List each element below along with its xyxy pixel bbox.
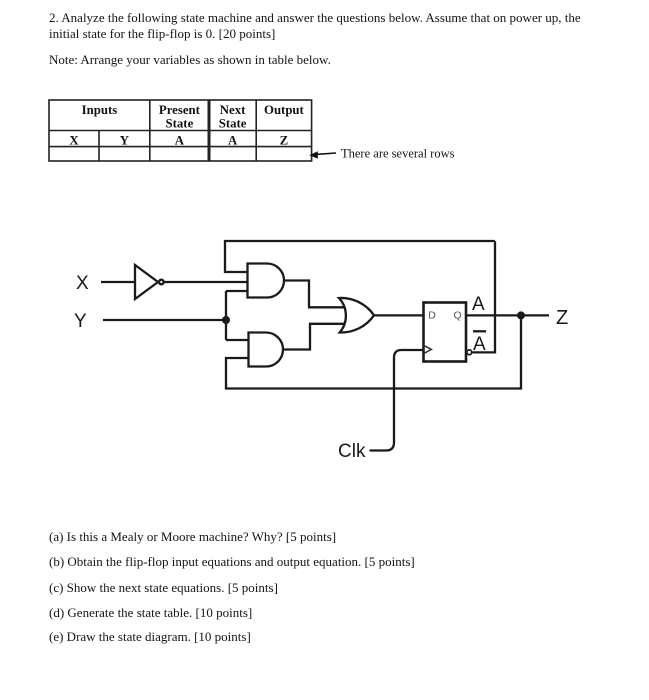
svg-text:State: State <box>166 116 194 130</box>
label X <box>76 273 89 294</box>
and-gate U3 (bottom) <box>249 333 284 367</box>
wire: Y branch to AND1 bottom input <box>226 290 248 292</box>
svg-text:Z: Z <box>280 134 289 148</box>
flip-flop U5 box <box>424 303 467 362</box>
wire: OR output to flip-flop D input <box>374 314 424 316</box>
annotation text: several rows <box>341 147 455 161</box>
note line <box>49 52 331 68</box>
and-gate U2 (top) <box>248 264 285 298</box>
svg-text:X: X <box>76 273 89 294</box>
node label A <box>472 294 485 315</box>
svg-text:D: D <box>428 310 436 322</box>
label Clk <box>338 441 366 462</box>
wire: AND2 output to OR bottom input <box>283 324 345 350</box>
label Z <box>556 307 568 329</box>
svg-text:There are several rows: There are several rows <box>341 147 455 161</box>
table header: Inputs <box>82 103 118 117</box>
svg-text:Inputs: Inputs <box>82 103 118 117</box>
wire: AND1 output to OR top input <box>284 281 345 308</box>
svg-text:A: A <box>473 334 486 355</box>
table row2: X Y A A Z <box>69 134 288 148</box>
table header: Present State <box>159 103 201 130</box>
svg-text:A: A <box>175 134 185 148</box>
state table thick divider <box>208 100 211 161</box>
label Y <box>74 311 87 332</box>
svg-text:Output: Output <box>264 103 305 117</box>
wire: Y branch to AND2 top input <box>226 339 249 341</box>
wire: Clk to flip-flop clock input <box>370 350 424 451</box>
wire: Qbar to feedback vertical <box>473 241 496 352</box>
svg-text:Present: Present <box>159 103 201 117</box>
table header: Next State <box>219 103 247 130</box>
svg-text:Y: Y <box>120 134 129 148</box>
node: Y junction dot <box>222 316 230 324</box>
wire: junction vertical branch <box>225 291 227 340</box>
or-gate U4 <box>339 298 374 333</box>
pin label D <box>428 310 436 322</box>
questions list <box>49 529 336 545</box>
svg-text:Z: Z <box>556 307 568 329</box>
pin label Q <box>454 310 462 322</box>
state table grid <box>49 100 312 161</box>
flip-flop Qbar bubble <box>467 350 472 355</box>
wire: A feedback to AND2 bottom input <box>226 315 521 388</box>
wire: A-bar feedback top line <box>225 241 495 272</box>
node: Q output junction dot <box>517 311 525 319</box>
problem statement paragraph <box>49 10 581 42</box>
wire: Y input to junction <box>103 319 226 321</box>
svg-text:Next: Next <box>220 103 246 117</box>
svg-text:A: A <box>228 134 238 148</box>
svg-text:Q: Q <box>454 310 462 322</box>
svg-text:Y: Y <box>74 311 87 332</box>
node label A-bar <box>473 331 486 355</box>
flip-flop clock triangle <box>424 345 432 353</box>
svg-text:State: State <box>219 116 247 130</box>
wire: X input to inverter <box>101 281 135 283</box>
svg-text:Clk: Clk <box>338 441 366 462</box>
table header: Output <box>264 103 305 117</box>
annotation arrow to table <box>309 151 336 158</box>
inverter U1 <box>135 265 164 299</box>
svg-text:A: A <box>472 294 485 315</box>
wire: Q output to Z <box>466 314 549 316</box>
svg-text:X: X <box>69 134 79 148</box>
wire: inverter output to AND1 middle input <box>165 281 248 283</box>
